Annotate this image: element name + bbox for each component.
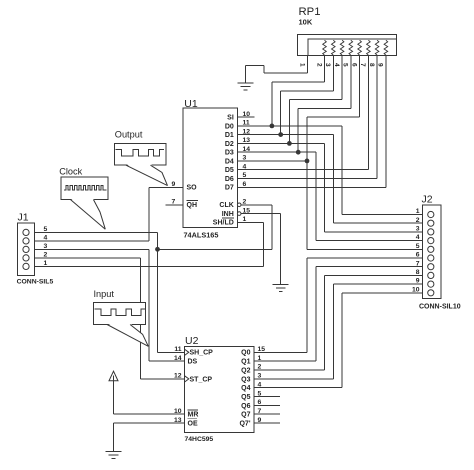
pin circle J1 4 <box>23 238 29 244</box>
svg-text:7: 7 <box>359 63 366 67</box>
wire RP1 pin 8 vertical to D6 <box>376 56 378 179</box>
svg-text:Input: Input <box>94 289 115 299</box>
pin circle J2 6 <box>428 255 434 261</box>
svg-text:ST_CP: ST_CP <box>190 376 213 383</box>
svg-text:SI: SI <box>227 115 234 122</box>
svg-text:D2: D2 <box>225 141 234 148</box>
svg-text:4: 4 <box>416 234 420 241</box>
svg-text:9: 9 <box>377 63 384 67</box>
svg-text:7: 7 <box>416 260 420 267</box>
clock wedge U2 SH_CP <box>184 349 188 355</box>
junction D4 node <box>305 159 310 164</box>
ground RP1 common <box>238 83 254 90</box>
wire MOSI vertical to U2 DS <box>148 249 150 361</box>
wire MOSI into U2 DS <box>149 360 184 362</box>
svg-text:4: 4 <box>44 235 48 242</box>
wire U1 INH horizontal <box>241 213 281 215</box>
svg-text:Clock: Clock <box>59 167 82 177</box>
pin circle J2 3 <box>428 229 434 235</box>
svg-text:5: 5 <box>44 226 48 233</box>
svg-text:1: 1 <box>44 260 48 267</box>
wire U1 D3 horizontal <box>238 151 316 153</box>
wire Q2 vertical to J2 <box>324 275 326 370</box>
wire RP1 pin 2 stair drop to D0 <box>271 82 273 126</box>
annotation Clock balloon tail <box>70 198 105 229</box>
svg-text:D1: D1 <box>225 132 234 139</box>
wire RP1 pin 2 stair horizontal <box>272 81 325 83</box>
wire J1 pin 2 horizontal (latch) <box>29 257 141 259</box>
connector J1 body <box>17 223 34 275</box>
wire U1 D5 horizontal <box>238 169 369 171</box>
resistor pack RP1 body <box>298 35 397 56</box>
annotation Output waveform <box>115 149 163 156</box>
svg-text:D6: D6 <box>225 176 234 183</box>
svg-text:74HC595: 74HC595 <box>185 436 214 443</box>
wire U2 Q6 stub (n.c.) <box>254 404 280 406</box>
svg-text:Q2: Q2 <box>241 367 250 374</box>
svg-text:5: 5 <box>258 390 262 397</box>
wire RP1 pin 4 stair drop to D2 <box>288 100 290 144</box>
wire RP1 pin 5 stair drop to D3 <box>297 108 299 152</box>
wire U1 D7 horizontal <box>238 186 386 188</box>
svg-text:13: 13 <box>174 417 182 424</box>
svg-text:15: 15 <box>243 207 251 214</box>
wire D2 vertical to J2 <box>324 143 326 232</box>
wire RP1 pin 3 stub <box>332 56 334 91</box>
wire U1 SH/LD stub <box>238 221 264 223</box>
svg-text:12: 12 <box>243 128 251 135</box>
junction SCK node <box>155 247 160 252</box>
wire Q3 to J2 pin 9 <box>333 283 427 285</box>
svg-text:9: 9 <box>172 181 176 188</box>
svg-text:4: 4 <box>243 163 247 170</box>
svg-text:CLK: CLK <box>219 202 233 209</box>
resistor RP1 element 8 <box>384 40 388 55</box>
wire RP1 pin 9 vertical to D7 <box>385 56 387 188</box>
svg-text:U2: U2 <box>185 335 199 347</box>
resistor pack RP1 inner outline <box>308 39 396 56</box>
wire Q0 vertical to J2 <box>306 258 308 352</box>
pin circle J1 1 <box>23 263 29 269</box>
wire U1 D6 horizontal <box>238 178 378 180</box>
svg-text:SH/LD: SH/LD <box>213 220 234 227</box>
svg-text:4: 4 <box>258 381 262 388</box>
svg-text:1: 1 <box>243 216 247 223</box>
svg-text:3: 3 <box>258 373 262 380</box>
svg-text:2: 2 <box>315 63 322 67</box>
svg-text:3: 3 <box>243 155 247 162</box>
wire U2 OE horizontal to ground <box>114 422 185 424</box>
pin circle J2 8 <box>428 272 434 278</box>
wire Q0 to J2 pin 6 <box>307 257 428 259</box>
wire RP1 pin 3 stair drop to D1 <box>280 91 282 135</box>
wire load vertical to U1 SH/LD <box>263 222 265 266</box>
svg-text:74ALS165: 74ALS165 <box>184 230 219 239</box>
svg-text:8: 8 <box>416 269 420 276</box>
svg-text:RP1: RP1 <box>299 6 321 18</box>
wire RP1 ground jog horizontal <box>246 64 265 66</box>
svg-text:MR: MR <box>188 412 199 419</box>
svg-text:15: 15 <box>258 346 266 353</box>
wire U1 D1 horizontal <box>238 134 334 136</box>
svg-text:1: 1 <box>416 208 420 215</box>
wire U2 OE ground vertical <box>113 423 115 451</box>
svg-text:D4: D4 <box>225 158 234 165</box>
wire RP1 pin 5 stair horizontal <box>298 107 351 109</box>
wire J1 pin 4 horizontal (MISO) <box>29 240 150 242</box>
svg-text:10K: 10K <box>299 18 313 27</box>
wire RP1 pin 2 stub <box>324 56 326 83</box>
annotation Output balloon box <box>114 143 165 165</box>
svg-text:7: 7 <box>258 408 262 415</box>
svg-text:1: 1 <box>298 63 305 67</box>
svg-text:13: 13 <box>243 137 251 144</box>
pin circle J2 1 <box>428 211 434 217</box>
wire U2 Q7' stub (n.c.) <box>254 422 280 424</box>
pin circle J2 9 <box>428 281 434 287</box>
wire RP1 pin 6 stair horizontal <box>307 116 360 118</box>
svg-text:SO: SO <box>187 185 198 192</box>
annotation Clock balloon box <box>61 177 108 200</box>
svg-text:10: 10 <box>174 408 182 415</box>
svg-text:6: 6 <box>243 181 247 188</box>
wire U1 SI stub (pin 10, n.c.) <box>238 116 255 118</box>
resistor RP1 element 4 <box>349 40 353 55</box>
wire D3 to J2 pin 4 <box>316 240 428 242</box>
svg-text:2: 2 <box>44 252 48 259</box>
wire D2 to J2 pin 3 <box>325 231 428 233</box>
pin circle J2 4 <box>428 238 434 244</box>
svg-text:INH: INH <box>222 211 234 218</box>
wire U1 SO stub <box>149 186 183 188</box>
svg-text:9: 9 <box>258 417 262 424</box>
junction D0 node <box>270 124 275 129</box>
svg-text:5: 5 <box>342 63 349 67</box>
wire Q1 vertical to J2 <box>315 267 317 362</box>
svg-text:D0: D0 <box>225 123 234 130</box>
ic U2 74HC595 body <box>184 346 254 432</box>
annotation Output balloon tail <box>126 164 168 186</box>
wire D4 vertical (RP1 pin 6 to J2 pin 5) <box>306 117 308 249</box>
wire U1 CLK stub <box>241 204 272 206</box>
wire RP1 pin 5 stub <box>350 56 352 109</box>
connector J2 body <box>423 205 441 299</box>
svg-text:J2: J2 <box>422 194 433 206</box>
ic U1 74ALS165 body <box>183 108 238 228</box>
svg-text:Q4: Q4 <box>241 385 250 392</box>
wire RP1 pin 4 stair horizontal <box>289 99 342 101</box>
svg-text:D3: D3 <box>225 150 234 157</box>
svg-text:6: 6 <box>258 399 262 406</box>
junction D1 node <box>278 132 283 137</box>
wire Q4 vertical to J2 <box>341 293 343 388</box>
ground below U2 OE <box>106 451 122 458</box>
svg-text:11: 11 <box>174 346 181 353</box>
svg-text:Output: Output <box>115 129 143 139</box>
clock wedge U2 ST_CP <box>184 376 188 382</box>
junction D2 node <box>287 141 292 146</box>
wire D1 to J2 pin 2 <box>333 222 427 224</box>
wire VCC to U2 MR vertical <box>113 381 115 414</box>
svg-text:14: 14 <box>174 355 182 362</box>
wire U2 Q1 horizontal <box>254 360 316 362</box>
ground below U1 INH <box>273 285 289 292</box>
wire J1 pin 1 horizontal (load) <box>29 265 264 267</box>
svg-text:OE: OE <box>188 421 198 428</box>
pin circle J1 3 <box>23 246 29 252</box>
resistor RP1 element 5 <box>358 40 362 55</box>
wire U2 Q4 horizontal <box>254 387 342 389</box>
pin circle J1 2 <box>23 255 29 261</box>
svg-text:4: 4 <box>333 63 340 67</box>
wire U2 Q3 horizontal <box>254 378 333 380</box>
svg-text:7: 7 <box>172 199 176 206</box>
wire Q1 to J2 pin 7 <box>316 266 428 268</box>
svg-text:CONN-SIL10: CONN-SIL10 <box>419 304 461 311</box>
wire Q2 to J2 pin 8 <box>325 274 428 276</box>
svg-text:2: 2 <box>416 217 420 224</box>
svg-text:Q0: Q0 <box>241 350 250 357</box>
svg-text:Q7': Q7' <box>239 421 250 428</box>
wire D3 vertical to J2 <box>315 152 317 240</box>
pin circle J1 5 <box>23 229 29 235</box>
svg-text:10: 10 <box>412 286 420 293</box>
wire RP1 pin 6 stub <box>359 56 361 118</box>
wire U2 Q5 stub (n.c.) <box>254 396 280 398</box>
annotation Input waveform <box>95 309 145 316</box>
svg-text:Q7: Q7 <box>241 412 250 419</box>
svg-text:8: 8 <box>368 63 375 67</box>
wire RP1 pin 1 stub <box>307 56 309 74</box>
wire Q3 vertical to J2 <box>332 284 334 379</box>
wire SCK branch to U1 CLK <box>158 248 272 250</box>
svg-text:CONN-SIL5: CONN-SIL5 <box>17 279 54 286</box>
resistor RP1 element 1 <box>323 40 327 55</box>
wire D4 to J2 pin 5 <box>307 248 428 250</box>
wire U1 D2 horizontal <box>238 142 325 144</box>
wire U2 Q0 horizontal <box>254 351 307 353</box>
svg-text:3: 3 <box>416 226 420 233</box>
svg-text:1: 1 <box>258 355 262 362</box>
wire MISO vertical <box>148 187 150 241</box>
svg-text:3: 3 <box>44 243 48 250</box>
svg-text:10: 10 <box>243 111 251 118</box>
wire RP1 pin 4 stub <box>341 56 343 100</box>
svg-text:12: 12 <box>174 373 182 380</box>
svg-text:DS: DS <box>188 359 198 366</box>
svg-text:D5: D5 <box>225 167 234 174</box>
svg-text:2: 2 <box>258 364 262 371</box>
wire RP1 pin 1 horizontal <box>264 72 308 74</box>
pin circle J2 2 <box>428 220 434 226</box>
wire U1 QH stub (pin 7, n.c.) <box>166 204 184 206</box>
svg-text:9: 9 <box>416 278 420 285</box>
svg-text:5: 5 <box>243 172 247 179</box>
pin circle J2 7 <box>428 264 434 270</box>
svg-text:D7: D7 <box>225 185 234 192</box>
wire RP1 ground jog vertical <box>263 65 265 73</box>
svg-text:2: 2 <box>243 199 247 206</box>
pin circle J2 10 <box>428 290 434 296</box>
wire J1 pin 3 horizontal (MOSI) <box>29 248 150 250</box>
power symbol VCC <box>109 371 118 381</box>
wire RP1 pin 3 stair horizontal <box>281 90 334 92</box>
annotation Input balloon box <box>94 303 146 325</box>
wire U1 INH vertical to ground <box>280 214 282 285</box>
svg-text:Q1: Q1 <box>241 359 250 366</box>
svg-text:J1: J1 <box>18 212 29 224</box>
svg-text:U1: U1 <box>184 98 198 110</box>
wire RP1 pin 7 vertical to D5 <box>367 56 369 170</box>
wire D0 to J2 pin 1 <box>342 214 428 216</box>
svg-text:Q6: Q6 <box>241 403 250 410</box>
resistor RP1 element 6 <box>367 40 371 55</box>
inversion bubble U1 INH <box>237 212 241 216</box>
svg-text:5: 5 <box>416 243 420 250</box>
inversion bubble U1 CLK <box>237 203 241 207</box>
wire D1 vertical to J2 <box>332 135 334 224</box>
svg-text:Q5: Q5 <box>241 394 250 401</box>
wire SCK vertical to U2 SH_CP <box>157 232 159 352</box>
svg-text:6: 6 <box>416 252 420 259</box>
junction D3 node <box>296 150 301 155</box>
svg-text:SH_CP: SH_CP <box>190 350 214 357</box>
pin circle J2 5 <box>428 246 434 252</box>
resistor RP1 element 3 <box>340 40 344 55</box>
wire U1 CLK vertical <box>271 205 273 250</box>
wire U1 D0 horizontal <box>238 125 343 127</box>
wire latch vertical to U2 ST_CP <box>139 258 141 379</box>
wire U2 Q2 horizontal <box>254 369 325 371</box>
wire VCC to U2 MR horizontal <box>114 413 185 415</box>
annotation Clock waveform <box>64 186 107 191</box>
svg-text:Q3: Q3 <box>241 376 250 383</box>
wire J1 pin 5 (SCK) horizontal <box>29 231 158 233</box>
wire U2 Q7 stub (n.c.) <box>254 413 280 415</box>
resistor RP1 element 2 <box>332 40 336 55</box>
svg-text:3: 3 <box>324 63 331 67</box>
wire U1 D4 horizontal <box>238 160 308 162</box>
wire RP1 ground drop <box>245 65 247 83</box>
wire SCK into U2 SH_CP <box>158 351 185 353</box>
annotation Input balloon tail <box>107 323 148 346</box>
resistor RP1 element 7 <box>375 40 379 55</box>
svg-text:QH: QH <box>187 202 198 209</box>
wire Q4 to J2 pin 10 <box>342 292 428 294</box>
svg-text:14: 14 <box>243 146 251 153</box>
svg-text:6: 6 <box>350 63 357 67</box>
wire latch into U2 ST_CP <box>140 378 184 380</box>
wire D0 vertical to J2 <box>341 126 343 215</box>
svg-text:11: 11 <box>243 120 250 127</box>
